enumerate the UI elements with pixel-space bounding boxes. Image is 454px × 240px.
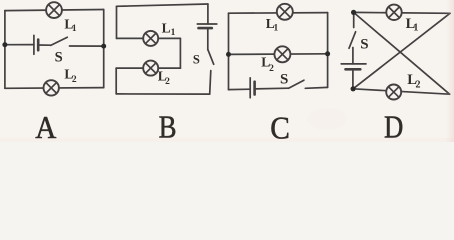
svg-text:S: S <box>280 71 288 87</box>
svg-text:2: 2 <box>165 77 170 87</box>
wire: A bottom side <box>5 87 104 90</box>
wire: B right side upper <box>207 4 209 24</box>
lamp L1 (circuit C) <box>277 4 293 20</box>
node dot D-bottom <box>351 86 356 91</box>
wire: B top side <box>117 4 208 6</box>
wire: A right side <box>103 10 105 88</box>
wire: B bottom side <box>116 93 210 95</box>
wire: D diagonal bottom-left to top-right <box>353 13 450 89</box>
bottom edge tint <box>0 138 454 142</box>
label L2 (circuit A) <box>64 67 77 85</box>
label L2 (circuit C) <box>261 55 274 74</box>
wire: A top side <box>5 10 104 11</box>
node dot C-right <box>325 51 330 56</box>
svg-text:S: S <box>55 50 63 66</box>
svg-text:S: S <box>360 37 368 53</box>
lamp L2 (circuit C) <box>274 46 290 62</box>
wire: B row L2 <box>116 67 180 69</box>
label L1 (circuit A) <box>64 17 77 34</box>
label L1 (circuit B) <box>162 20 176 38</box>
node dot C-left <box>226 52 231 57</box>
svg-text:2: 2 <box>269 64 274 74</box>
wire: B row L1 <box>117 37 181 39</box>
paper background <box>0 0 454 142</box>
wire: A left side <box>4 11 6 89</box>
wire: C right side <box>327 13 329 88</box>
right edge tint <box>446 0 454 142</box>
svg-text:2: 2 <box>72 75 77 85</box>
lamp L2 (circuit B) <box>143 61 158 76</box>
faint scan smudge <box>307 108 347 130</box>
wire: D bottom side <box>353 89 450 94</box>
label L2 (circuit B) <box>158 69 170 88</box>
lamp L2 (circuit D) <box>386 85 401 100</box>
svg-text:1: 1 <box>274 24 279 34</box>
lamp L1 (circuit D) <box>386 5 401 20</box>
lamp L1 (circuit B) <box>143 31 158 46</box>
svg-text:2: 2 <box>416 80 421 91</box>
svg-text:1: 1 <box>413 23 418 34</box>
label L1 (circuit D) <box>406 16 419 34</box>
lamp L2 (circuit A) <box>44 80 59 95</box>
label L1 (circuit C) <box>266 16 279 34</box>
label L2 (circuit D) <box>407 72 420 91</box>
switch S (circuit D) <box>349 12 356 48</box>
svg-text:C: C <box>270 110 290 142</box>
svg-text:A: A <box>35 109 56 142</box>
wire: C left side <box>228 13 230 89</box>
lamp L1 (circuit A) <box>46 2 62 18</box>
battery (circuit A) <box>34 35 51 54</box>
node dot A-left <box>2 42 7 47</box>
svg-text:S: S <box>193 52 200 66</box>
battery (circuit D) <box>341 48 366 89</box>
switch S (circuit C) <box>289 80 328 88</box>
svg-text:B: B <box>159 108 177 142</box>
wire: B left side lower <box>115 68 117 94</box>
node dot A-right <box>101 44 106 49</box>
switch S (circuit B) <box>208 50 214 94</box>
wire: C top side <box>229 12 328 15</box>
battery (circuit B) <box>197 24 217 50</box>
wire: A middle branch left <box>5 44 34 46</box>
svg-text:L: L <box>162 20 171 35</box>
svg-text:1: 1 <box>72 24 77 34</box>
switch S (circuit A) <box>51 37 104 46</box>
battery (circuit C) <box>250 78 288 98</box>
node dot D-top <box>351 10 356 15</box>
wire: C middle row <box>229 53 328 56</box>
wire: B left side upper <box>116 6 118 38</box>
wire: B middle connector <box>179 38 181 68</box>
svg-text:D: D <box>384 109 403 142</box>
wire: D diagonal top-left to bottom-right <box>354 12 450 94</box>
wire: D top side <box>354 11 450 14</box>
wire: C bottom left <box>229 88 251 90</box>
svg-text:1: 1 <box>171 28 176 38</box>
